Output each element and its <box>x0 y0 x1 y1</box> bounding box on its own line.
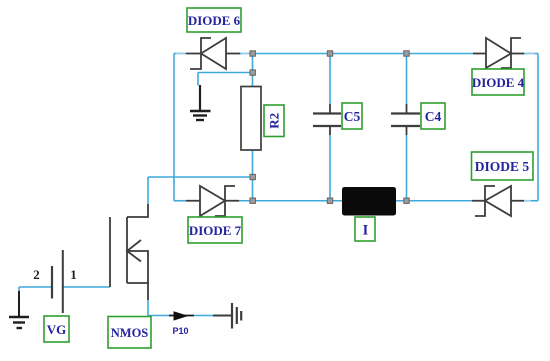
svg-text:NMOS: NMOS <box>111 326 149 340</box>
svg-text:I: I <box>363 223 369 239</box>
svg-text:VG: VG <box>47 322 67 337</box>
svg-text:C5: C5 <box>344 109 361 124</box>
svg-text:C4: C4 <box>425 109 442 124</box>
svg-text:1: 1 <box>70 267 77 282</box>
svg-text:R2: R2 <box>267 113 282 129</box>
svg-text:DIODE 4: DIODE 4 <box>472 75 525 90</box>
svg-text:DIODE 5: DIODE 5 <box>475 159 530 174</box>
svg-text:2: 2 <box>33 267 40 282</box>
svg-text:DIODE 7: DIODE 7 <box>189 223 242 238</box>
svg-text:P10: P10 <box>172 326 188 336</box>
svg-text:DIODE 6: DIODE 6 <box>188 13 241 28</box>
